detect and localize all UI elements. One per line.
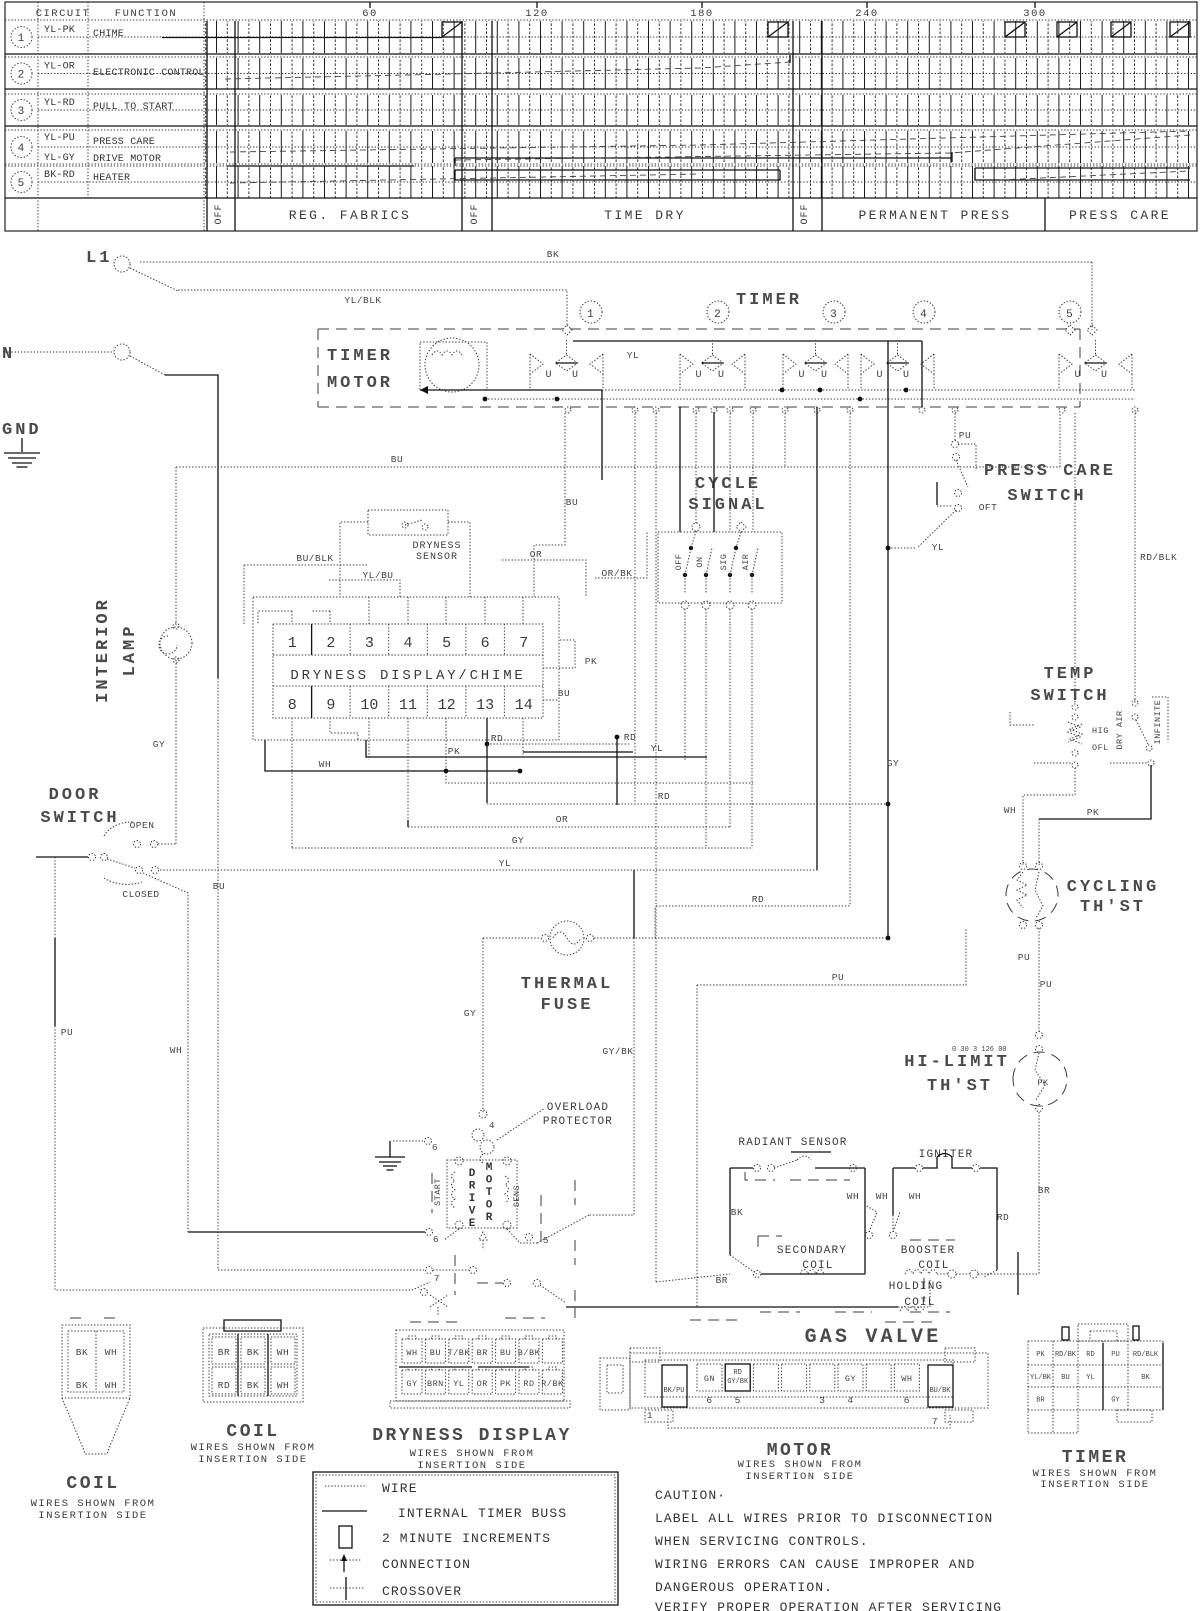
- svg-text:GY: GY: [406, 1379, 417, 1389]
- svg-text:BK-RD: BK-RD: [44, 170, 75, 181]
- wire dryness sensor drops: [340, 522, 368, 597]
- svg-text:BK: BK: [76, 1380, 88, 1391]
- svg-text:BU/BK: BU/BK: [929, 1387, 951, 1395]
- svg-text:8: 8: [288, 697, 297, 714]
- svg-text:WH: WH: [1004, 805, 1016, 816]
- svg-text:INSERTION SIDE: INSERTION SIDE: [198, 1454, 307, 1466]
- timer motor: [420, 338, 487, 392]
- svg-text:YL: YL: [651, 743, 663, 754]
- timer sequence chart table: [5, 2, 1197, 231]
- svg-text:PU: PU: [1111, 1351, 1119, 1359]
- wire motor blade to pin5: [444, 1229, 459, 1240]
- svg-text:DANGEROUS OPERATION.: DANGEROUS OPERATION.: [655, 1580, 833, 1595]
- svg-text:0 30 3 126 00: 0 30 3 126 00: [952, 1046, 1007, 1054]
- svg-text:DRYNESS DISPLAY: DRYNESS DISPLAY: [372, 1426, 572, 1446]
- timer motor feed solid: [420, 389, 602, 391]
- svg-text:THERMAL: THERMAL: [521, 975, 613, 994]
- timer terminal circles 1-5: [580, 301, 602, 323]
- svg-text:B/BK: B/BK: [518, 1348, 541, 1358]
- svg-text:START: START: [433, 1178, 443, 1206]
- svg-text:YL-PU: YL-PU: [44, 133, 75, 144]
- dryness display outer enclosure: [253, 597, 559, 740]
- svg-text:7: 7: [932, 1416, 938, 1427]
- wire N blade: [130, 356, 165, 375]
- svg-text:4: 4: [18, 143, 26, 155]
- svg-text:E: E: [469, 1218, 476, 1230]
- svg-text:1: 1: [18, 33, 26, 45]
- svg-text:1: 1: [647, 1410, 653, 1421]
- svg-text:11: 11: [399, 697, 417, 714]
- svg-text:WH: WH: [277, 1380, 289, 1391]
- wire door blade down: [143, 873, 188, 1232]
- svg-text:BK: BK: [247, 1380, 259, 1391]
- svg-text:FUNCTION: FUNCTION: [115, 8, 177, 20]
- legend crossover: [330, 1587, 364, 1589]
- svg-text:VERIFY PROPER OPERATION AFTER: VERIFY PROPER OPERATION AFTER SERVICING: [655, 1600, 1002, 1611]
- svg-text:GY/BK: GY/BK: [602, 1046, 633, 1057]
- svg-text:R: R: [486, 1212, 493, 1224]
- svg-text:CHIME: CHIME: [93, 29, 124, 40]
- dashed brackets: [431, 1173, 433, 1213]
- wire PK below display: [446, 718, 753, 783]
- svg-text:CLOSED: CLOSED: [122, 889, 159, 900]
- svg-text:12: 12: [438, 697, 456, 714]
- wire PU down to motor area: [696, 985, 698, 1307]
- wire OR: [502, 560, 586, 597]
- svg-text:YL/BU: YL/BU: [362, 570, 393, 581]
- svg-text:ON: ON: [695, 556, 705, 567]
- wire BU drop to interior lamp: [175, 467, 177, 625]
- svg-text:PK: PK: [448, 746, 460, 757]
- svg-text:60: 60: [362, 8, 378, 20]
- wire RD to cycling: [656, 905, 850, 907]
- wire PK from temp switch: [1039, 765, 1151, 819]
- svg-text:YL-GY: YL-GY: [44, 153, 75, 164]
- svg-text:YL-OR: YL-OR: [44, 62, 75, 73]
- svg-text:2: 2: [326, 635, 335, 652]
- svg-text:U: U: [545, 370, 552, 381]
- svg-text:SECONDARY: SECONDARY: [777, 1245, 847, 1257]
- svg-text:YL-RD: YL-RD: [44, 98, 75, 109]
- dash marks bottom: [410, 1321, 458, 1323]
- legend connection: [330, 1559, 362, 1561]
- chart tick grid: [205, 21, 1196, 53]
- svg-text:WH: WH: [901, 1374, 912, 1384]
- svg-text:RD/BLK: RD/BLK: [1133, 1351, 1159, 1359]
- svg-text:L1: L1: [86, 249, 112, 268]
- wires display top pins: [291, 611, 293, 624]
- svg-text:CYCLING: CYCLING: [1067, 878, 1159, 897]
- legend internal timer buss: [322, 1510, 367, 1512]
- svg-text:WIRES SHOWN FROM: WIRES SHOWN FROM: [738, 1459, 863, 1471]
- svg-text:BK: BK: [247, 1347, 259, 1358]
- wire GY/BK vertical: [633, 870, 635, 938]
- motor lower switch: [504, 1280, 511, 1287]
- svg-text:BR: BR: [1036, 1397, 1045, 1405]
- wire BU horizontal: [176, 466, 1060, 468]
- svg-text:PK: PK: [500, 1379, 512, 1389]
- svg-text:4: 4: [920, 309, 928, 321]
- svg-text:TIMER: TIMER: [327, 347, 393, 366]
- svg-text:6: 6: [432, 1142, 438, 1153]
- wire WH solid: [265, 740, 520, 771]
- timer buss solid segment: [573, 340, 922, 342]
- wire OR/BK: [595, 532, 647, 578]
- svg-text:OR: OR: [477, 1379, 488, 1389]
- press care switch: [918, 410, 997, 553]
- table frame: [5, 2, 1197, 231]
- svg-text:LABEL ALL WIRES PRIOR TO DISCO: LABEL ALL WIRES PRIOR TO DISCONNECTION: [655, 1511, 993, 1526]
- svg-text:YL-PK: YL-PK: [44, 25, 75, 36]
- cycle signal terminals top: [692, 523, 700, 531]
- svg-text:7: 7: [519, 635, 528, 652]
- terminal marks below timer box: [565, 407, 571, 413]
- svg-text:INSERTION SIDE: INSERTION SIDE: [417, 1460, 526, 1472]
- svg-text:180: 180: [690, 8, 713, 20]
- svg-text:GY: GY: [464, 1008, 476, 1019]
- svg-text:4: 4: [403, 635, 412, 652]
- svg-text:RD: RD: [752, 894, 764, 905]
- svg-text:V: V: [469, 1206, 476, 1218]
- wire BR down to gas valve: [1038, 1112, 1040, 1274]
- svg-text:U: U: [695, 370, 702, 381]
- svg-text:R: R: [469, 1181, 476, 1193]
- wire OR horizontal: [408, 826, 730, 828]
- svg-text:PRESS CARE: PRESS CARE: [984, 462, 1116, 481]
- svg-text:6: 6: [433, 1234, 439, 1245]
- svg-text:SENSOR: SENSOR: [416, 552, 458, 563]
- dryness display/chime block: [273, 624, 543, 718]
- wire PU left vertical: [54, 857, 56, 1026]
- svg-text:RD: RD: [624, 732, 636, 743]
- wire door YL horizontal: [160, 869, 817, 871]
- wire pin 6 solid: [188, 1231, 425, 1233]
- svg-text:MOTOR: MOTOR: [327, 374, 393, 393]
- svg-text:FUSE: FUSE: [541, 996, 594, 1015]
- svg-text:PK: PK: [585, 656, 597, 667]
- svg-text:GND: GND: [2, 421, 42, 440]
- svg-text:BU: BU: [1061, 1374, 1069, 1382]
- svg-text:PK: PK: [1087, 807, 1099, 818]
- svg-text:4: 4: [847, 1395, 853, 1406]
- svg-text:WHEN SERVICING CONTROLS.: WHEN SERVICING CONTROLS.: [655, 1534, 869, 1549]
- svg-text:DRY AIR: DRY AIR: [1115, 710, 1125, 749]
- svg-text:PROTECTOR: PROTECTOR: [543, 1116, 613, 1128]
- svg-text:PK: PK: [1037, 1078, 1049, 1088]
- svg-text:3: 3: [365, 635, 374, 652]
- secondary coil loop: [729, 1168, 731, 1255]
- svg-text:HOLDING: HOLDING: [889, 1281, 944, 1293]
- svg-text:TH'ST: TH'ST: [1080, 898, 1146, 917]
- svg-text:SENS: SENS: [512, 1185, 522, 1207]
- svg-text:GAS VALVE: GAS VALVE: [805, 1326, 942, 1349]
- svg-text:REG. FABRICS: REG. FABRICS: [289, 208, 411, 223]
- radiant sensor contacts: [730, 1156, 865, 1180]
- svg-text:WH: WH: [847, 1191, 859, 1202]
- gas valve bottom run: [566, 1306, 898, 1308]
- svg-text:CYCLE: CYCLE: [695, 475, 761, 494]
- svg-text:OVERLOAD: OVERLOAD: [547, 1102, 609, 1114]
- svg-text:N: N: [2, 345, 15, 364]
- svg-text:YL: YL: [499, 858, 511, 869]
- svg-text:BU: BU: [213, 881, 225, 892]
- timer cam contacts: [530, 354, 543, 374]
- svg-text:YL: YL: [1086, 1374, 1094, 1382]
- thermal fuse: [550, 921, 584, 955]
- dryness display connector: [390, 1330, 570, 1408]
- svg-text:SIGNAL: SIGNAL: [688, 496, 767, 515]
- svg-text:BR: BR: [1038, 1185, 1050, 1196]
- wire fuse to right: [594, 937, 888, 939]
- svg-text:5: 5: [735, 1395, 741, 1406]
- svg-text:5: 5: [18, 178, 26, 190]
- timer feed diamonds: [562, 325, 572, 335]
- svg-text:10: 10: [360, 697, 378, 714]
- svg-text:BK: BK: [76, 1347, 88, 1358]
- svg-text:GY/BK: GY/BK: [727, 1378, 749, 1386]
- svg-text:9: 9: [326, 697, 335, 714]
- wire GY horizontal: [292, 847, 753, 849]
- svg-text:U: U: [1074, 370, 1081, 381]
- svg-text:YL/BLK: YL/BLK: [344, 295, 381, 306]
- wire YL solid from pin 14: [366, 740, 707, 757]
- svg-text:U: U: [903, 370, 910, 381]
- svg-text:PRESS CARE: PRESS CARE: [93, 137, 155, 148]
- svg-text:BK/PU: BK/PU: [663, 1387, 684, 1395]
- svg-text:AIR: AIR: [741, 554, 751, 571]
- wire drops from timer: [634, 410, 636, 804]
- wires cycle signal outputs down: [684, 624, 686, 760]
- svg-text:6: 6: [481, 635, 490, 652]
- internal timer buss upper: [602, 389, 1135, 391]
- wire RD dotted from pin 13: [487, 743, 630, 745]
- svg-text:GY: GY: [1111, 1397, 1120, 1405]
- svg-text:BU: BU: [558, 688, 570, 699]
- svg-text:TIME DRY: TIME DRY: [604, 208, 686, 223]
- svg-text:YL: YL: [627, 350, 639, 361]
- svg-text:1: 1: [587, 309, 595, 321]
- internal timer buss lower: [485, 398, 1135, 400]
- svg-text:WH: WH: [319, 759, 331, 770]
- svg-text:PU: PU: [61, 1027, 73, 1038]
- svg-text:SWITCH: SWITCH: [40, 809, 119, 828]
- coil connector 1: [62, 1318, 130, 1454]
- svg-text:2: 2: [714, 309, 722, 321]
- svg-text:5: 5: [442, 635, 451, 652]
- wire RD upper right: [654, 908, 656, 938]
- svg-text:D: D: [469, 1168, 476, 1180]
- svg-text:WIRES SHOWN FROM: WIRES SHOWN FROM: [191, 1442, 316, 1454]
- wire BU small: [534, 413, 565, 597]
- svg-text:BU: BU: [566, 497, 578, 508]
- svg-text:OFF: OFF: [470, 203, 481, 224]
- svg-text:T/BK: T/BK: [448, 1348, 471, 1358]
- svg-text:YL/BK: YL/BK: [1030, 1374, 1052, 1382]
- svg-text:TIMER: TIMER: [1062, 1448, 1129, 1468]
- svg-text:INSERTION SIDE: INSERTION SIDE: [1040, 1479, 1149, 1491]
- svg-text:WH: WH: [277, 1347, 289, 1358]
- svg-text:GY: GY: [845, 1374, 856, 1384]
- svg-text:3: 3: [830, 309, 838, 321]
- coil connector 2: [203, 1320, 303, 1402]
- svg-text:RD: RD: [997, 1212, 1009, 1223]
- svg-text:YL: YL: [932, 542, 944, 553]
- svg-text:U: U: [718, 370, 725, 381]
- svg-text:BK: BK: [1141, 1374, 1150, 1382]
- svg-text:DOOR: DOOR: [49, 786, 102, 805]
- svg-text:HI-LIMIT: HI-LIMIT: [904, 1053, 1010, 1072]
- svg-text:INFINITE: INFINITE: [1153, 700, 1163, 745]
- svg-text:3: 3: [18, 106, 26, 118]
- wire BK right drop: [1091, 262, 1093, 330]
- svg-text:RD/BK: RD/BK: [1055, 1351, 1077, 1359]
- svg-text:CONNECTION: CONNECTION: [382, 1557, 471, 1572]
- wire solid YL vertical: [887, 341, 889, 938]
- cam trace circuit 5 heater: [227, 165, 414, 167]
- svg-text:OR/BK: OR/BK: [601, 568, 632, 579]
- svg-text:1: 1: [288, 635, 297, 652]
- svg-text:2: 2: [18, 70, 26, 82]
- cycle signal box: [658, 532, 782, 603]
- svg-text:BK: BK: [547, 249, 559, 260]
- svg-text:INTERIOR: INTERIOR: [94, 597, 113, 703]
- svg-text:COIL: COIL: [226, 1422, 279, 1442]
- svg-text:HEATER: HEATER: [93, 173, 130, 184]
- svg-text:U: U: [572, 370, 579, 381]
- overload protector: [479, 1110, 487, 1118]
- svg-text:TIMER: TIMER: [736, 291, 802, 310]
- svg-text:PU: PU: [959, 430, 971, 441]
- svg-text:5: 5: [1066, 309, 1074, 321]
- svg-text:CIRCUIT: CIRCUIT: [36, 8, 91, 20]
- svg-text:4: 4: [489, 1120, 495, 1131]
- svg-text:WIRES SHOWN FROM: WIRES SHOWN FROM: [410, 1448, 535, 1460]
- svg-text:OFF: OFF: [214, 203, 225, 224]
- svg-text:INSERTION SIDE: INSERTION SIDE: [745, 1471, 854, 1483]
- svg-text:PU: PU: [1018, 952, 1030, 963]
- wire PU below cycling: [1038, 928, 1040, 1032]
- booster coil loop: [893, 1167, 915, 1169]
- dryness sensor: [368, 510, 448, 535]
- svg-text:U: U: [798, 370, 805, 381]
- cam trace circuit 1 chime: [162, 37, 442, 39]
- svg-text:O: O: [486, 1175, 493, 1187]
- svg-text:2 MINUTE INCREMENTS: 2 MINUTE INCREMENTS: [382, 1531, 551, 1546]
- svg-text:BU: BU: [430, 1348, 441, 1358]
- svg-text:OFF: OFF: [800, 203, 811, 224]
- svg-text:CAUTION·: CAUTION·: [655, 1488, 726, 1503]
- wire L1 blade: [130, 268, 178, 291]
- svg-text:LAMP: LAMP: [121, 624, 140, 677]
- svg-text:WIRING ERRORS CAN CAUSE IMPROP: WIRING ERRORS CAN CAUSE IMPROPER AND: [655, 1557, 975, 1572]
- svg-text:DRYNESS: DRYNESS: [412, 541, 461, 552]
- cycle signal switches: [683, 573, 687, 577]
- svg-text:INSERTION SIDE: INSERTION SIDE: [38, 1510, 147, 1522]
- svg-text:OFL: OFL: [1092, 743, 1109, 753]
- svg-text:R/BK: R/BK: [541, 1379, 564, 1389]
- bottom dashes: [690, 1319, 740, 1321]
- off column dividers: [206, 21, 208, 231]
- door switch closed contact: [36, 856, 88, 858]
- timer contact drops to buss: [529, 374, 531, 390]
- svg-text:OR: OR: [556, 814, 568, 825]
- svg-text:BR: BR: [218, 1347, 230, 1358]
- wires display bottom pins: [291, 718, 293, 848]
- svg-text:PK: PK: [1036, 1351, 1045, 1359]
- temp switch contacts: [1010, 697, 1168, 768]
- motor connector: [600, 1348, 988, 1428]
- svg-text:BR: BR: [477, 1348, 488, 1358]
- wire BR drop: [655, 906, 657, 1282]
- svg-text:GN: GN: [704, 1374, 715, 1384]
- svg-text:RD: RD: [218, 1380, 230, 1391]
- svg-text:WIRE: WIRE: [382, 1481, 418, 1496]
- drive motor block: [433, 1157, 522, 1229]
- svg-text:300: 300: [1023, 8, 1046, 20]
- svg-text:3: 3: [819, 1395, 825, 1406]
- svg-text:WH: WH: [105, 1347, 117, 1358]
- wire BK top bus: [140, 261, 1092, 263]
- svg-text:WH: WH: [876, 1191, 888, 1202]
- svg-text:YL: YL: [453, 1379, 464, 1389]
- svg-text:6: 6: [904, 1395, 910, 1406]
- svg-text:RD: RD: [491, 733, 503, 744]
- svg-text:ELECTRONIC CONTROL: ELECTRONIC CONTROL: [93, 68, 205, 79]
- svg-text:RD: RD: [733, 1369, 741, 1377]
- svg-text:TEMP: TEMP: [1044, 665, 1097, 684]
- svg-text:RD: RD: [523, 1379, 534, 1389]
- wire BU/BLK: [244, 564, 368, 566]
- svg-text:BU: BU: [391, 454, 403, 465]
- wire N solid run: [165, 375, 218, 678]
- svg-text:RD/BLK: RD/BLK: [1140, 552, 1177, 563]
- wire RD/BLK right: [1134, 410, 1136, 703]
- wire GY into fuse: [483, 937, 541, 939]
- wires cycle signal feeds: [695, 410, 697, 523]
- wire lamp to door switch: [175, 660, 177, 844]
- svg-text:M: M: [486, 1162, 493, 1174]
- svg-text:CROSSOVER: CROSSOVER: [382, 1584, 462, 1599]
- svg-text:BK: BK: [731, 1207, 743, 1218]
- wire GY to temp switch: [1074, 413, 1076, 704]
- svg-text:SWITCH: SWITCH: [1030, 687, 1109, 706]
- svg-text:HIG: HIG: [1092, 726, 1109, 736]
- svg-text:TH'ST: TH'ST: [927, 1077, 993, 1096]
- svg-text:WH: WH: [170, 1045, 182, 1056]
- svg-text:BOOSTER: BOOSTER: [901, 1245, 956, 1257]
- wire RD solid display: [486, 718, 488, 803]
- svg-text:DRIVE MOTOR: DRIVE MOTOR: [93, 154, 161, 165]
- svg-text:120: 120: [525, 8, 548, 20]
- svg-text:WH: WH: [406, 1348, 417, 1358]
- svg-text:BRN: BRN: [427, 1379, 444, 1389]
- wire GY down from thermal: [482, 938, 484, 1113]
- svg-text:OFF: OFF: [674, 554, 684, 571]
- wire WH from temp switch: [1023, 768, 1075, 865]
- svg-text:GY: GY: [887, 758, 899, 769]
- wire RD solid mid: [616, 737, 618, 805]
- svg-text:PU: PU: [1040, 979, 1052, 990]
- svg-text:GY: GY: [153, 739, 165, 750]
- svg-text:IGNITER: IGNITER: [919, 1149, 974, 1161]
- svg-text:PULL TO START: PULL TO START: [93, 102, 174, 113]
- svg-text:WH: WH: [105, 1380, 117, 1391]
- svg-text:BU: BU: [500, 1348, 511, 1358]
- svg-text:MOTOR: MOTOR: [767, 1441, 834, 1461]
- svg-text:GY: GY: [512, 835, 524, 846]
- wire to gas valve blade: [656, 1274, 730, 1282]
- svg-text:DRYNESS DISPLAY/CHIME: DRYNESS DISPLAY/CHIME: [290, 668, 525, 684]
